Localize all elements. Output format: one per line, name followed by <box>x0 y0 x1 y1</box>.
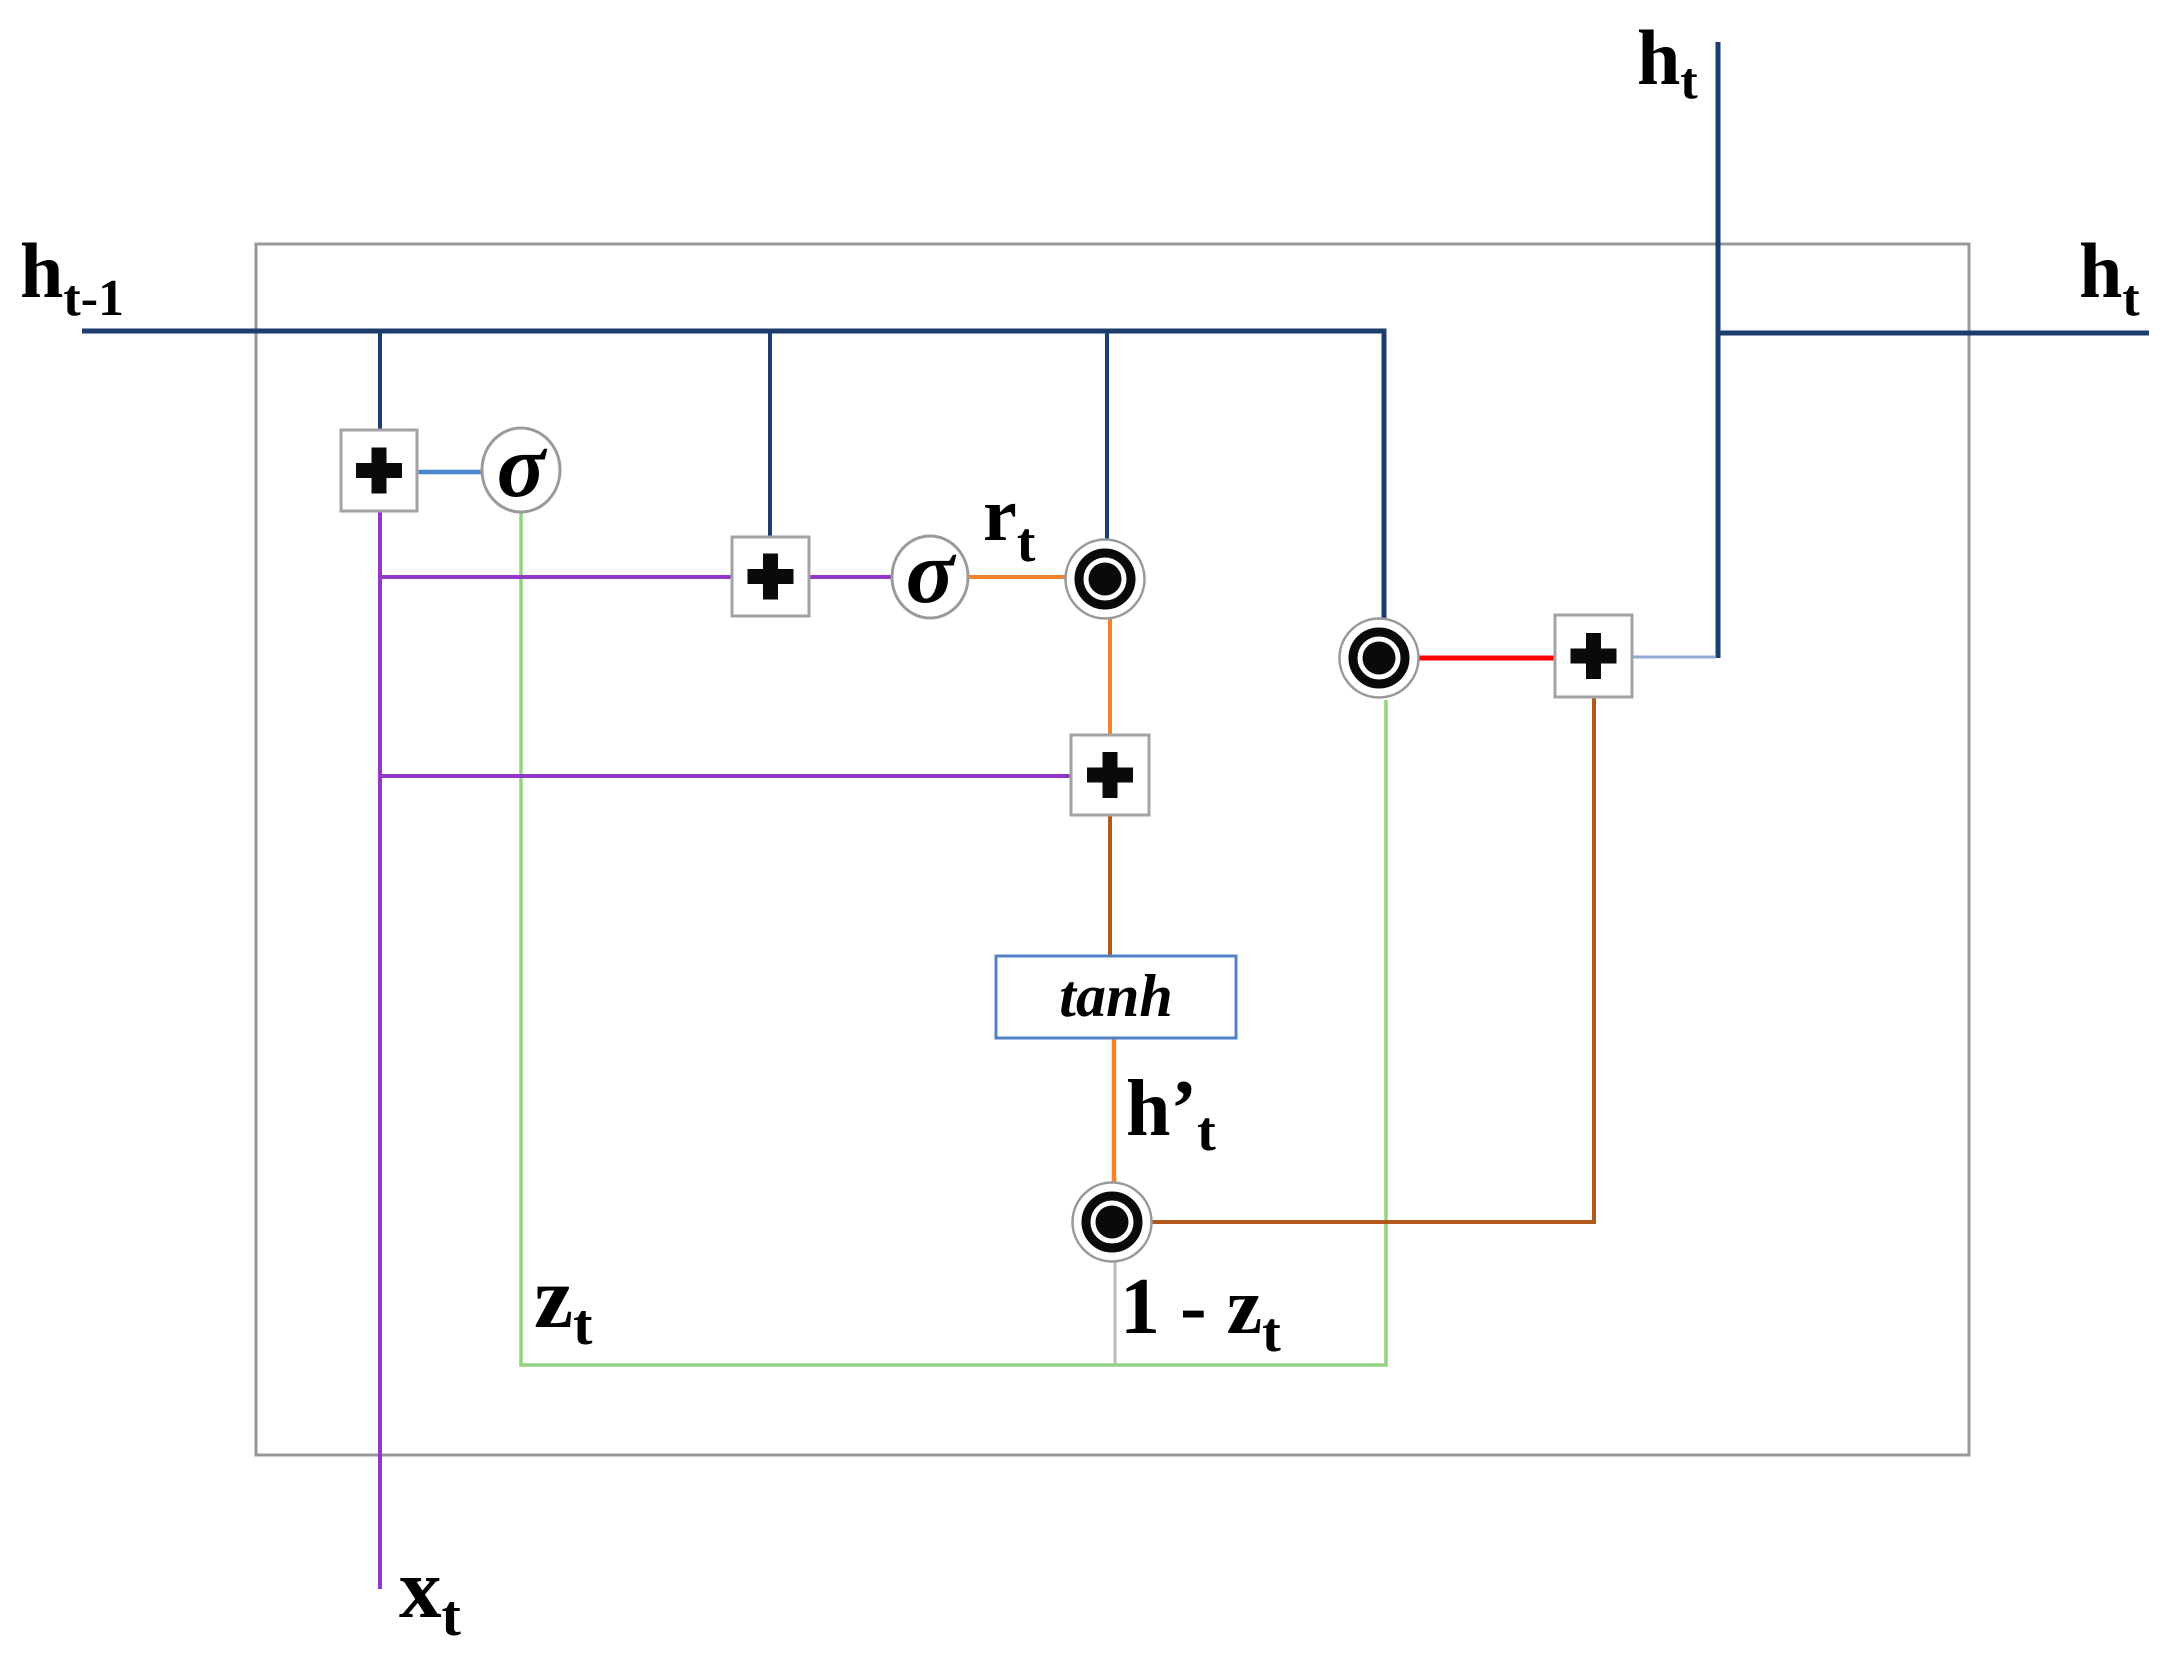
svg-text:tanh: tanh <box>1059 963 1172 1029</box>
svg-text:σ: σ <box>497 417 548 516</box>
svg-text:σ: σ <box>906 523 957 622</box>
svg-text:1 - zt: 1 - zt <box>1120 1263 1281 1364</box>
